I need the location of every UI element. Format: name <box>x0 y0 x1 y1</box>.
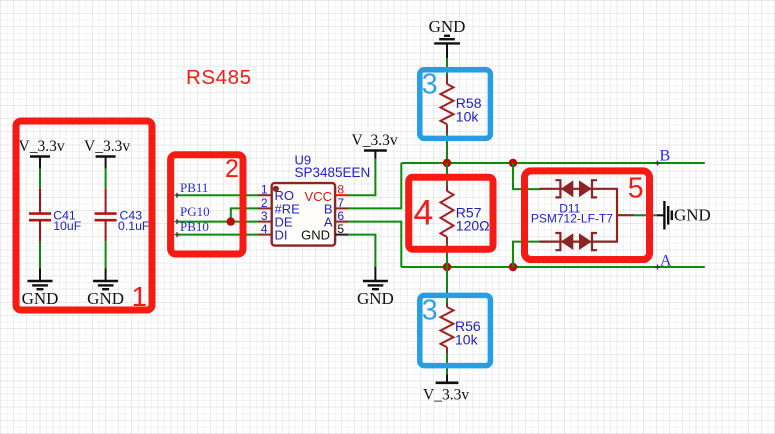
annotation box 4 <box>409 177 493 249</box>
svg-text:PG10: PG10 <box>180 204 210 219</box>
svg-text:5: 5 <box>628 172 644 204</box>
diode D11 (TVS array) <box>531 180 634 250</box>
wire PG10 to pin3 <box>175 219 260 224</box>
wire D11 bottom left <box>513 242 541 267</box>
ground (U9 pin5) <box>357 267 394 308</box>
svg-text:1: 1 <box>261 183 268 197</box>
junction PG10 <box>227 217 235 225</box>
svg-text:GND: GND <box>301 228 330 243</box>
junction A/R57 <box>443 263 451 271</box>
svg-text:8: 8 <box>337 183 344 197</box>
capacitor C41 <box>29 188 82 241</box>
ground (C43) <box>87 268 124 308</box>
power V_3.3v (R56) <box>423 375 469 404</box>
junction A/D11 <box>509 263 517 271</box>
annotation box 2 <box>171 155 243 254</box>
svg-text:1: 1 <box>132 281 148 312</box>
pin 4 DI <box>258 222 287 243</box>
ground (top, above R58) <box>429 17 466 58</box>
svg-text:3: 3 <box>422 69 438 101</box>
annotation box 5 <box>525 171 650 260</box>
resistor R57 <box>441 163 490 267</box>
wire D11 top left <box>513 163 541 189</box>
wire C43 to gnd <box>105 241 107 268</box>
wire branch pin2 <box>231 208 259 221</box>
power V_3.3v (U9) <box>352 132 398 159</box>
svg-text:V_3.3v: V_3.3v <box>84 138 130 155</box>
pin 2 #RE <box>258 196 300 217</box>
svg-text:2: 2 <box>225 155 239 183</box>
wire V to C43 <box>105 169 107 189</box>
svg-text:7: 7 <box>337 196 344 210</box>
resistor R56 <box>441 303 481 353</box>
junction B/D11 <box>509 159 517 167</box>
svg-text:4: 4 <box>414 192 434 232</box>
svg-text:V_3.3v: V_3.3v <box>352 132 398 149</box>
ground (right, rotated) <box>657 201 711 230</box>
op-amp U1 ... actually transceiver U9 body <box>272 183 335 246</box>
svg-text:10k: 10k <box>456 108 480 124</box>
wire R58 to B rail <box>446 133 448 163</box>
svg-text:GND: GND <box>357 289 394 308</box>
svg-text:GND: GND <box>87 289 124 308</box>
svg-text:DI: DI <box>275 228 288 243</box>
svg-text:10uF: 10uF <box>53 219 82 233</box>
wire V to C41 <box>39 169 41 189</box>
svg-text:2: 2 <box>261 196 268 210</box>
pin 8 VCC <box>305 183 349 204</box>
wire pin8 to V_3.3v <box>348 158 375 195</box>
annotation box 1 <box>16 121 152 310</box>
wire R56 to power <box>446 353 448 375</box>
svg-text:GND: GND <box>674 205 711 224</box>
pin 3 DE <box>258 209 293 229</box>
svg-text:3: 3 <box>422 294 438 326</box>
resistor R58 <box>441 75 482 133</box>
wire gnd to R58 <box>446 58 448 76</box>
svg-text:PB10: PB10 <box>180 219 209 234</box>
wire PB10 to pin4 <box>175 232 260 237</box>
pin 1 RO <box>258 183 294 203</box>
svg-text:V_3.3v: V_3.3v <box>423 386 469 403</box>
annotation box 3 (bottom) <box>420 295 491 365</box>
power V_3.3v (C41) <box>19 138 65 169</box>
capacitor C43 <box>95 188 150 241</box>
pin 7 B <box>324 196 349 217</box>
svg-text:B: B <box>660 148 671 165</box>
svg-text:120Ω: 120Ω <box>456 218 490 234</box>
svg-text:A: A <box>660 252 672 269</box>
wire pin6 to A rail <box>348 222 401 267</box>
annotation box 3 (top) <box>420 70 491 139</box>
pin 5 GND <box>301 222 348 243</box>
wire pin7 to B rail <box>348 163 401 208</box>
svg-text:V_3.3v: V_3.3v <box>19 138 65 155</box>
svg-text:GND: GND <box>429 17 466 36</box>
wire D11 to ground <box>634 214 658 216</box>
node A rail <box>401 265 705 270</box>
svg-text:5: 5 <box>337 222 344 236</box>
svg-text:GND: GND <box>22 289 59 308</box>
wire PB11 to pin1 <box>175 193 260 198</box>
power V_3.3v (C43) <box>84 138 130 169</box>
svg-text:SP3485EEN: SP3485EEN <box>295 165 371 180</box>
wire C41 to gnd <box>39 241 41 268</box>
junction B/R58 <box>443 159 451 167</box>
svg-text:6: 6 <box>337 209 344 223</box>
svg-text:3: 3 <box>261 209 268 223</box>
pin 6 A <box>324 209 349 229</box>
svg-text:RS485: RS485 <box>186 66 252 89</box>
node B rail <box>401 161 705 166</box>
ground (C41) <box>22 268 59 308</box>
wire R56 top <box>446 267 448 303</box>
svg-text:PSM712-LF-T7: PSM712-LF-T7 <box>531 212 613 226</box>
svg-text:10k: 10k <box>455 331 479 347</box>
wire pin5 to ground <box>348 235 375 268</box>
svg-text:4: 4 <box>261 222 268 236</box>
svg-text:0.1uF: 0.1uF <box>118 219 150 233</box>
svg-text:PB11: PB11 <box>180 180 208 195</box>
